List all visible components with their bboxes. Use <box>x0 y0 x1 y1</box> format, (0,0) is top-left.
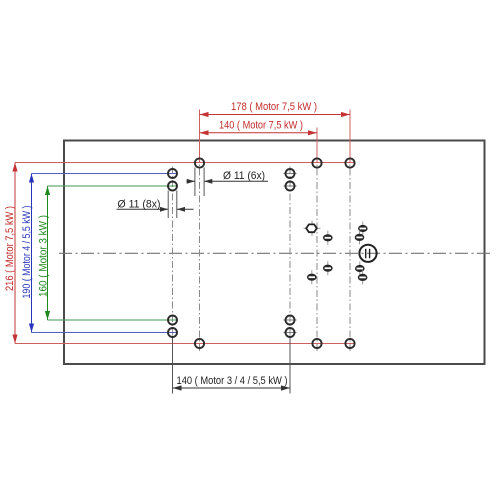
horizontal centerline <box>59 252 490 254</box>
red extension vertical x=350 <box>349 110 351 163</box>
vertical centerline column x=316.8 <box>316 155 318 352</box>
svg-text:160 ( Motor 3 kW ): 160 ( Motor 3 kW ) <box>38 215 50 297</box>
svg-text:190 ( Motor 4 / 5,5 kW ): 190 ( Motor 4 / 5,5 kW ) <box>21 206 33 299</box>
blue extension line top <box>32 173 178 175</box>
hole bottom row left (199.5,343.5) <box>195 339 204 348</box>
small hole (290,186) <box>286 182 295 191</box>
hole top row left (199.5,163) <box>195 158 204 167</box>
hole top row right (350,163) <box>345 158 354 167</box>
hole edge lines 6x <box>194 168 196 197</box>
cross tick (290,332.5) <box>284 332 297 334</box>
vertical centerline column x=199.5 <box>199 155 201 352</box>
plate outline <box>64 141 485 365</box>
hole bottom row mid (316.8,343.5) <box>312 339 321 348</box>
leader dia 11 (8x) <box>117 208 169 210</box>
screw (327.8,268.2) <box>327 261 329 275</box>
svg-text:Ø 11 (8x): Ø 11 (8x) <box>118 199 161 211</box>
bottom dimension 140 extension verticals <box>172 337 174 394</box>
dimension 216 vertical line <box>14 163 16 344</box>
small hole (290,173.5) <box>286 169 295 178</box>
svg-text:140 ( Motor 3 / 4 / 5,5 kW ): 140 ( Motor 3 / 4 / 5,5 kW ) <box>177 375 288 387</box>
green extension line top <box>48 185 178 187</box>
bottom dimension 140 line <box>173 387 291 389</box>
cross tick (290,320) <box>284 319 297 321</box>
dimension 178 line <box>200 114 351 116</box>
svg-text:178 ( Motor 7,5 kW ): 178 ( Motor 7,5 kW ) <box>231 101 317 113</box>
dimension 190 vertical line <box>31 174 33 333</box>
screw (359.5,237.4) <box>359 230 361 244</box>
vertical centerline column x=172.5 <box>172 167 174 341</box>
svg-text:140 ( Motor 7,5 kW ): 140 ( Motor 7,5 kW ) <box>219 120 303 132</box>
blue extension line bottom <box>32 332 178 334</box>
hole top row mid (316.8,163) <box>312 158 321 167</box>
small hole (172.5,332.5) <box>168 328 177 337</box>
red extension vertical x=317 <box>316 128 318 163</box>
leader dia 11 (6x) <box>187 180 195 182</box>
vertical centerline column x=290 <box>289 167 291 341</box>
red extension line top hole row <box>15 162 355 164</box>
small hole (290,320) <box>286 316 295 325</box>
green extension line bottom <box>48 319 178 321</box>
screw (362.8,228.5) <box>362 222 364 236</box>
screw (311.8,277.2) <box>311 270 313 284</box>
dimension 140 top line <box>200 132 318 134</box>
dimension 160 vertical line <box>47 186 49 320</box>
hex bolt (312,228.3) <box>311 221 313 237</box>
red extension line bottom hole row <box>15 343 355 345</box>
center big hole (368,253.3) <box>359 245 376 262</box>
hole edge lines 8x <box>167 191 169 219</box>
vertical centerline column x=350 <box>349 155 351 352</box>
cross tick (290,186) <box>284 185 297 187</box>
screw (359.8,268.5) <box>359 262 361 276</box>
screw (327.8,237.8) <box>327 231 329 245</box>
small hole (172.5,173.5) <box>168 169 177 178</box>
svg-text:216 ( Motor 7,5 kW ): 216 ( Motor 7,5 kW ) <box>4 206 16 291</box>
small hole (172.5,320) <box>168 316 177 325</box>
screw (362.6,277.4) <box>362 270 364 284</box>
small hole (290,332.5) <box>286 328 295 337</box>
small hole (172.5,186) <box>168 182 177 191</box>
red extension vertical x=199.5 <box>199 110 201 163</box>
svg-text:Ø 11 (6x): Ø 11 (6x) <box>223 170 265 182</box>
hole bottom row right (350,343.5) <box>345 339 354 348</box>
cross tick (290,173.5) <box>284 173 297 175</box>
